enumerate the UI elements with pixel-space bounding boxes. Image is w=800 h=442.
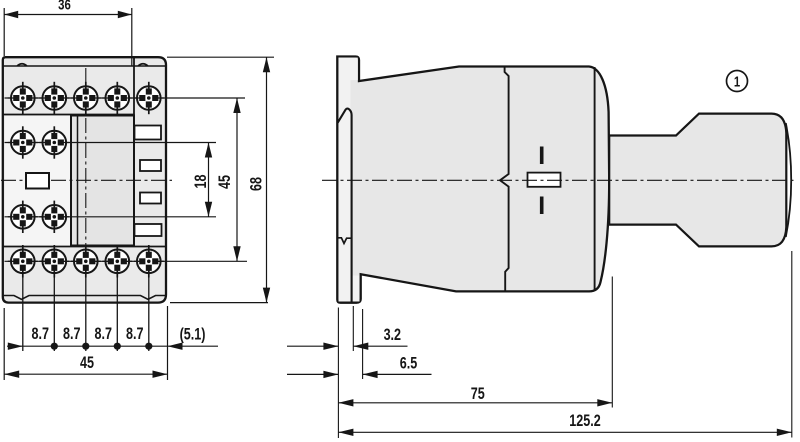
din clip white strip [339, 58, 358, 81]
clip claw notch [338, 109, 352, 302]
front face inner line [594, 67, 596, 291]
left middle panel [5, 116, 70, 246]
latch dash bottom [540, 197, 544, 215]
center plate inner line [77, 116, 79, 246]
coil label box [26, 173, 49, 189]
chain dots [51, 343, 58, 350]
body divider line [500, 67, 509, 292]
svg-text:125.2: 125.2 [569, 411, 600, 430]
svg-text:45: 45 [80, 353, 94, 372]
svg-text:8.7: 8.7 [94, 324, 111, 343]
terminal window w2 [140, 160, 161, 171]
line above bottom screws [3, 246, 166, 248]
row leader line bottom screws [5, 260, 248, 262]
svg-text:6.5: 6.5 [400, 354, 417, 373]
row leader line coil bottom [5, 216, 217, 218]
chain dimension line 8.7 [7, 345, 218, 347]
clip foot top edge [338, 238, 352, 244]
svg-text:8.7: 8.7 [63, 324, 80, 343]
screw extension lines to dimension chain [23, 245, 149, 351]
svg-text:1: 1 [734, 73, 740, 90]
terminal window w4 [135, 224, 162, 236]
front horizontal centerline [1, 179, 172, 181]
vertical divider right of 4th column [133, 58, 135, 247]
dimension 18 vertical [208, 143, 210, 217]
arrow 36 right [118, 11, 132, 18]
arrow 45 left [4, 371, 19, 378]
row leader line coil top [5, 142, 217, 144]
dimension 125.2 [338, 431, 791, 433]
top seam line [3, 64, 166, 66]
svg-text:18: 18 [191, 175, 210, 189]
svg-text:36: 36 [58, 0, 71, 13]
screws top row [8, 82, 38, 114]
center plate [71, 116, 134, 246]
svg-text:8.7: 8.7 [126, 324, 143, 343]
dimension 3.2 [287, 345, 338, 347]
svg-text:3.2: 3.2 [384, 325, 401, 344]
terminal window w1 [135, 126, 162, 140]
screws bottom row [8, 245, 38, 277]
dimension 45 bottom line [4, 373, 167, 375]
marker circle 1 [727, 71, 748, 92]
screws coil row lower [8, 201, 38, 233]
terminal window w3 [140, 193, 161, 204]
arrow 45 right [153, 371, 168, 378]
line under top screws [3, 114, 134, 116]
svg-text:(5.1): (5.1) [180, 325, 206, 344]
dimension 6.5 [287, 373, 338, 375]
screws coil row upper [8, 126, 38, 158]
contactor front body outline [3, 57, 166, 302]
side extension lines [338, 251, 791, 438]
dimension 36 extension lines [4, 8, 132, 66]
dimension 68 vertical [266, 57, 268, 302]
leader body top edge [167, 56, 274, 58]
side silhouette [337, 57, 609, 303]
dimension 45 bottom extension lines [4, 306, 167, 380]
leader body bottom edge [170, 302, 268, 304]
bottom seam line with notches [3, 296, 166, 300]
latch indicator rect [528, 173, 561, 187]
attachment dome end [786, 123, 791, 237]
svg-text:45: 45 [215, 175, 234, 189]
side centerline [322, 179, 795, 181]
dimension 36 line [4, 14, 132, 16]
row leader line top screws [5, 97, 246, 99]
front vertical centerline [85, 68, 87, 251]
latch dash top [540, 147, 544, 165]
chain arrow right at 5.1 [168, 343, 183, 350]
arrow 36 left [4, 11, 18, 18]
dimension 45 vertical [236, 98, 238, 261]
svg-text:8.7: 8.7 [31, 324, 48, 343]
dimension 75 [338, 402, 612, 404]
svg-text:68: 68 [247, 177, 266, 191]
chain arrow left [8, 343, 23, 350]
attachment silhouette [609, 114, 786, 247]
svg-text:75: 75 [471, 384, 485, 403]
